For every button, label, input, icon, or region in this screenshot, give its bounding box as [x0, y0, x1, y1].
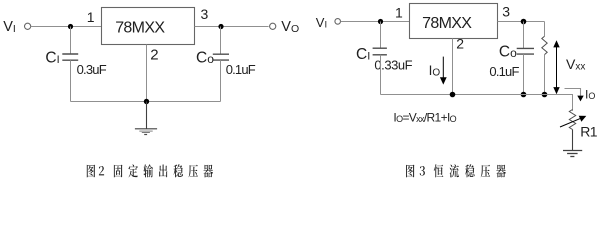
junction dot: input node [68, 24, 73, 29]
resistor R1 (variable) [560, 110, 586, 130]
input terminal (right circuit) [335, 19, 341, 25]
svg-text:2: 2 [456, 35, 464, 51]
wire: R1 down to ground [572, 130, 574, 151]
junction dot: pin 2 on bottom rail [450, 92, 456, 98]
svg-text:IO=Vxx/R1+IO: IO=Vxx/R1+IO [393, 110, 456, 124]
wire: CO down to bottom rail (right circuit) [523, 54, 525, 94]
capacitor CI (right circuit) [373, 47, 387, 49]
junction dot: output node [218, 24, 223, 29]
svg-text:1: 1 [395, 5, 403, 21]
resistor: load zigzag [542, 36, 547, 54]
wire: input terminal to pin 1 (right circuit) [341, 21, 410, 23]
wire: pin 3 to output terminal [195, 26, 269, 28]
ground (left circuit) [135, 102, 157, 135]
wire: pin 2 down to ground node [146, 45, 148, 102]
svg-text:2: 2 [150, 46, 158, 63]
wire: input terminal to pin 1 [31, 26, 101, 28]
wire: output node down to CO [220, 27, 222, 55]
svg-text:78MXX: 78MXX [422, 15, 472, 32]
caption: figure 3 constant-current regulator [406, 164, 506, 177]
regulator U1 78MXX (left circuit) [102, 8, 195, 45]
wire: CI down to bottom rail [70, 60, 72, 101]
ground (right circuit) [563, 151, 582, 157]
svg-text:1: 1 [87, 9, 95, 25]
regulator U2 78MXX (right circuit) [410, 4, 498, 39]
svg-text:3: 3 [502, 3, 510, 19]
svg-text:0.1uF: 0.1uF [489, 64, 519, 79]
input terminal (left circuit) [25, 23, 31, 29]
capacitor CO (right circuit) [517, 47, 534, 49]
svg-text:R1: R1 [580, 124, 597, 140]
wire: load branch top [544, 22, 546, 37]
wire: output node down to CO (right circuit) [523, 22, 525, 49]
junction dot: load bottom [542, 92, 548, 98]
capacitor CO (left circuit) [213, 53, 229, 55]
wire: CI down to bottom rail (right circuit) [380, 55, 382, 95]
svg-text:Co: Co [196, 50, 214, 67]
wire: input node down to CI [70, 27, 72, 54]
current arrow IO (quiescent, below pin 2) [440, 57, 447, 85]
svg-text:0.3uF: 0.3uF [77, 62, 107, 77]
svg-text:78MXX: 78MXX [115, 19, 165, 36]
current arrow IO (output, top right hook) [565, 89, 584, 102]
svg-text:Co: Co [499, 44, 517, 61]
wire: pin 3 to load branch [498, 21, 545, 23]
wire: pin 2 down to bottom rail (right circuit) [452, 39, 454, 95]
wire: load branch bottom [544, 55, 546, 95]
junction dot: output node (right circuit) [521, 19, 527, 25]
wire: bottom rail corner down to R1 [572, 95, 574, 111]
wire: CO down to bottom rail [220, 60, 222, 101]
junction dot: input node (right circuit) [378, 19, 383, 24]
junction dot: CO bottom [521, 92, 527, 98]
svg-text:3: 3 [201, 6, 209, 22]
voltage arrow VXX (double-headed) [553, 40, 559, 94]
svg-text:0.1uF: 0.1uF [226, 62, 256, 77]
caption: figure 2 fixed-output regulator [87, 164, 213, 177]
capacitor CI (left circuit) [62, 53, 78, 55]
junction dot: ground node [144, 99, 149, 104]
output terminal (left circuit) [270, 23, 276, 29]
wire: bottom rail (left circuit) [71, 101, 221, 103]
wire: bottom rail (right circuit) [381, 94, 574, 96]
wire: input node down to CI (right circuit) [380, 22, 382, 49]
